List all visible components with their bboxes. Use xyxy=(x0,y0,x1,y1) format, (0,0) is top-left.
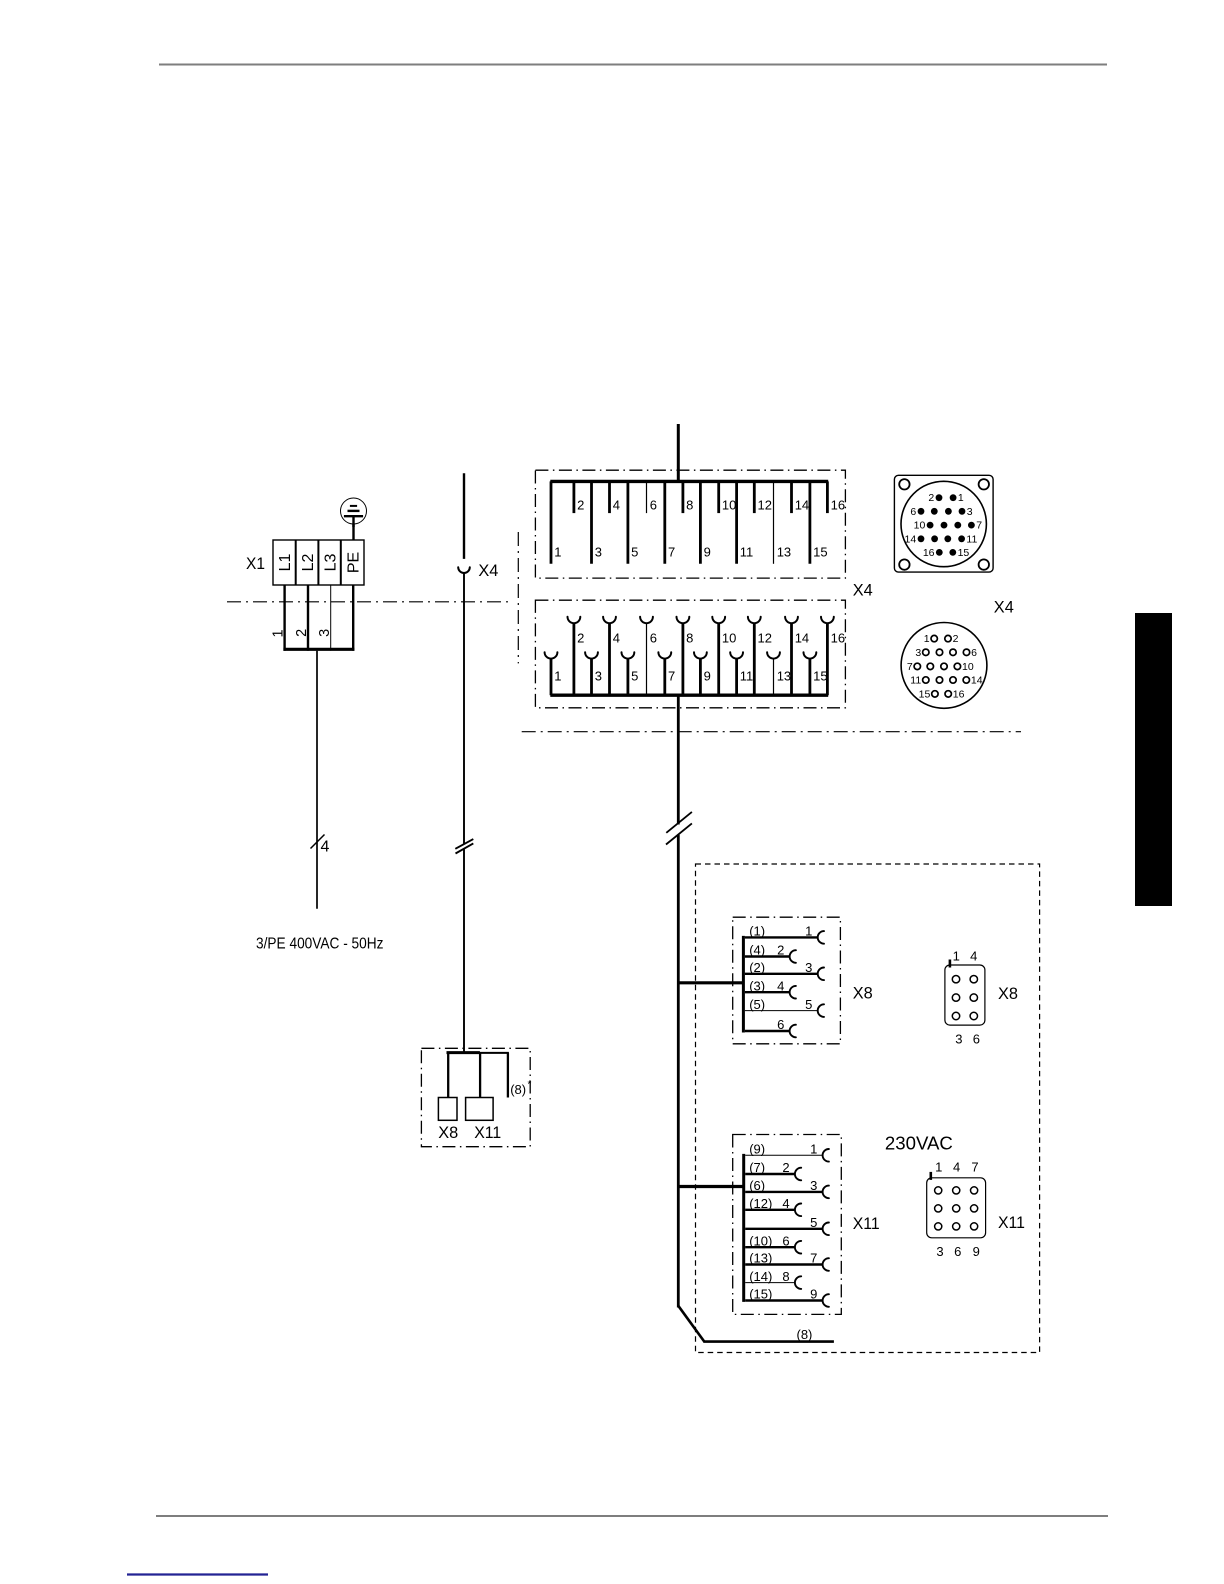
svg-text:6: 6 xyxy=(777,1017,784,1032)
X11 plug (square) xyxy=(466,1098,494,1121)
wire from connector X4 down (lower part) xyxy=(463,849,465,1052)
connector X8 face xyxy=(945,960,985,1026)
svg-text:(4): (4) xyxy=(749,943,765,958)
svg-text:5: 5 xyxy=(631,669,638,684)
X4 pin 1 xyxy=(550,481,553,563)
svg-text:14: 14 xyxy=(905,533,917,545)
svg-text:1: 1 xyxy=(924,633,930,645)
svg-text:X4: X4 xyxy=(853,580,873,599)
X4 pin 7 xyxy=(663,481,666,563)
svg-text:3: 3 xyxy=(595,669,602,684)
connector socket X4 (left) xyxy=(458,567,470,573)
X4 pin 16 xyxy=(826,481,829,513)
svg-text:9: 9 xyxy=(973,1244,980,1259)
svg-text:3: 3 xyxy=(805,960,812,975)
X4 pin 5 xyxy=(627,481,630,563)
svg-text:1: 1 xyxy=(271,629,287,637)
svg-text:X8: X8 xyxy=(438,1123,458,1142)
svg-text:X8: X8 xyxy=(998,984,1018,1003)
svg-text:*: * xyxy=(528,1080,532,1091)
X11 pin 9 wire (15) xyxy=(745,1299,822,1301)
svg-text:16: 16 xyxy=(953,689,965,701)
plug area enclosure (dash-dot box) xyxy=(421,1048,530,1146)
terminal block X1 xyxy=(273,540,364,585)
wire to X8 plug xyxy=(447,1053,449,1098)
X4 pin 6 xyxy=(646,481,648,513)
svg-text:6: 6 xyxy=(973,1032,980,1047)
svg-text:4: 4 xyxy=(777,978,784,993)
wire (8) return xyxy=(678,1306,834,1342)
svg-text:3: 3 xyxy=(317,629,333,637)
cable break slashes (left wire) xyxy=(455,839,473,853)
svg-text:13: 13 xyxy=(777,545,791,560)
svg-text:10: 10 xyxy=(962,661,974,673)
X8 pin 5 wire (5) xyxy=(745,1010,818,1012)
X4 socket 8 xyxy=(682,623,685,695)
wire X4 bus to distribution (upper) xyxy=(677,695,680,824)
svg-text:PE: PE xyxy=(345,552,362,573)
enclosure X4 socket side (dash-dot box) xyxy=(535,600,845,708)
X4 socket 7 xyxy=(663,658,666,695)
svg-text:7: 7 xyxy=(976,520,982,532)
remote device enclosure (dashed box) xyxy=(696,864,1040,1353)
X4 pin 10 xyxy=(717,481,720,513)
svg-text:6: 6 xyxy=(954,1244,961,1259)
X4 pin 2 xyxy=(573,481,576,513)
X4 pin 13 xyxy=(773,481,775,563)
svg-text:3: 3 xyxy=(915,647,921,659)
wire to connector X4 (upper segment) xyxy=(463,473,465,559)
enclosure X4 pin side (dash-dot box) xyxy=(535,470,845,578)
supply cable wire xyxy=(316,651,318,909)
X11 pin 7 wire (13) xyxy=(745,1263,822,1265)
bus bar X8 xyxy=(742,936,745,1033)
X8 pin 1 wire (1) xyxy=(745,936,818,938)
svg-text:9: 9 xyxy=(704,545,711,560)
cabinet boundary line (left horizontal dash-dot) xyxy=(227,601,513,603)
svg-text:3: 3 xyxy=(595,545,602,560)
svg-text:(2): (2) xyxy=(749,960,765,975)
svg-text:2: 2 xyxy=(294,629,310,637)
bus bar X4 socket side xyxy=(550,694,828,697)
svg-text:12: 12 xyxy=(758,631,772,646)
svg-text:1: 1 xyxy=(953,948,960,963)
X11 pin 1 wire (9) xyxy=(745,1154,822,1156)
svg-text:(6): (6) xyxy=(749,1178,765,1193)
wire supply to X4 bus xyxy=(677,424,680,481)
svg-text:(1): (1) xyxy=(749,924,765,939)
cable break slashes (main cable) xyxy=(666,812,692,845)
svg-text:1: 1 xyxy=(554,545,561,560)
svg-text:3: 3 xyxy=(967,506,973,518)
bus bar X4 pin side xyxy=(550,480,828,483)
svg-text:11: 11 xyxy=(740,669,754,684)
svg-text:15: 15 xyxy=(958,547,970,559)
svg-text:X11: X11 xyxy=(474,1123,501,1142)
junction bar plug area xyxy=(447,1051,480,1054)
svg-text:10: 10 xyxy=(722,631,736,646)
svg-text:10: 10 xyxy=(914,520,926,532)
svg-text:4: 4 xyxy=(613,497,620,512)
svg-text:16: 16 xyxy=(831,497,845,512)
X11 face pin labels xyxy=(935,1160,980,1260)
svg-text:10: 10 xyxy=(722,497,736,512)
svg-text:7: 7 xyxy=(668,669,675,684)
X4 pin 12 xyxy=(753,481,756,513)
svg-text:15: 15 xyxy=(813,669,827,684)
svg-text:9: 9 xyxy=(810,1287,817,1302)
svg-text:15: 15 xyxy=(919,689,931,701)
svg-text:(8): (8) xyxy=(510,1082,526,1097)
svg-text:(5): (5) xyxy=(749,997,765,1012)
svg-text:(10): (10) xyxy=(749,1233,772,1248)
svg-text:L2: L2 xyxy=(300,554,317,572)
svg-text:(7): (7) xyxy=(749,1160,765,1175)
svg-text:2: 2 xyxy=(777,943,784,958)
svg-text:3: 3 xyxy=(955,1032,962,1047)
X4 socket 11 xyxy=(735,658,738,695)
X4 socket 6 xyxy=(646,623,648,695)
svg-text:1: 1 xyxy=(958,492,964,504)
svg-text:5: 5 xyxy=(810,1215,817,1230)
wire feed to X8 bus xyxy=(678,981,743,984)
wire from connector X4 down (upper part) xyxy=(463,573,465,845)
svg-text:6: 6 xyxy=(910,506,916,518)
svg-text:15: 15 xyxy=(813,545,827,560)
svg-text:5: 5 xyxy=(631,545,638,560)
svg-text:3: 3 xyxy=(936,1244,943,1259)
svg-text:8: 8 xyxy=(686,497,693,512)
svg-text:(9): (9) xyxy=(749,1142,765,1157)
X11 pin 2 wire (7) xyxy=(745,1173,794,1175)
svg-text:1: 1 xyxy=(554,669,561,684)
junction bar below X1 xyxy=(283,648,354,651)
svg-text:8: 8 xyxy=(686,631,693,646)
X8 plug (square) xyxy=(438,1098,457,1121)
svg-text:(8): (8) xyxy=(797,1327,813,1342)
X4 socket 13 xyxy=(773,658,775,695)
svg-text:X8: X8 xyxy=(853,984,873,1003)
X4 pin 8 xyxy=(682,481,685,513)
X4 pin 14 xyxy=(790,481,793,513)
X4 socket 10 xyxy=(717,623,720,695)
wire X4 bus to distribution (lower) xyxy=(677,835,680,1308)
X4 pin 11 xyxy=(735,481,738,563)
svg-text:11: 11 xyxy=(740,545,754,560)
svg-text:8: 8 xyxy=(782,1269,789,1284)
svg-text:1: 1 xyxy=(805,924,812,939)
X11 pin 4 wire (12) xyxy=(745,1209,794,1211)
wire terminal 1 (L1) xyxy=(283,585,285,651)
wire feed to X11 bus xyxy=(678,1185,743,1188)
svg-text:1: 1 xyxy=(935,1160,942,1175)
svg-text:6: 6 xyxy=(782,1233,789,1248)
svg-text:2: 2 xyxy=(577,497,584,512)
X4 socket 2 xyxy=(573,623,576,695)
wire terminal PE xyxy=(352,585,354,651)
svg-text:X11: X11 xyxy=(998,1213,1025,1232)
X4 socket 15 xyxy=(809,658,812,695)
wire (8) stub xyxy=(507,1053,509,1098)
svg-text:2: 2 xyxy=(577,631,584,646)
svg-text:13: 13 xyxy=(777,669,791,684)
X4 pin 9 xyxy=(699,481,702,563)
connector X11 face xyxy=(927,1172,986,1238)
wire terminal 3 (L3) xyxy=(330,585,332,651)
X4 socket 4 xyxy=(608,623,611,695)
wire junction to (8) stub xyxy=(479,1052,509,1054)
X8 pin 3 wire (2) xyxy=(745,973,818,975)
connector X4 cable face xyxy=(901,623,987,709)
enclosure X11 (dash-dot box) xyxy=(733,1135,842,1315)
svg-text:4: 4 xyxy=(613,631,620,646)
X8 face pin labels xyxy=(953,948,980,1046)
svg-text:6: 6 xyxy=(971,647,977,659)
svg-text:4: 4 xyxy=(953,1160,960,1175)
X4 pin 4 xyxy=(608,481,611,513)
svg-text:16: 16 xyxy=(831,631,845,646)
svg-text:14: 14 xyxy=(971,675,983,687)
svg-text:(12): (12) xyxy=(749,1196,772,1211)
svg-text:X4: X4 xyxy=(478,561,498,580)
svg-text:16: 16 xyxy=(923,547,935,559)
svg-text:2: 2 xyxy=(782,1160,789,1175)
svg-text:(14): (14) xyxy=(749,1269,772,1284)
wire to X11 plug xyxy=(479,1053,481,1098)
svg-text:4: 4 xyxy=(970,948,977,963)
cabinet boundary line (vertical dash-dot) xyxy=(517,532,519,663)
bus bar X11 xyxy=(742,1154,745,1302)
label (8)* xyxy=(510,1080,531,1098)
X4 socket 3 xyxy=(590,658,593,695)
enclosure X8 (dash-dot box) xyxy=(733,917,841,1044)
X4 socket 12 xyxy=(753,623,756,695)
ground symbol (protective earth in circle) xyxy=(341,498,367,527)
X4 cable face pins (hollow) with pin numbers xyxy=(907,633,983,700)
X8 pin 4 wire (3) xyxy=(745,991,789,993)
svg-text:3/PE 400VAC - 50Hz: 3/PE 400VAC - 50Hz xyxy=(256,936,384,953)
svg-text:(15): (15) xyxy=(749,1287,772,1302)
X8 pin 2 wire (4) xyxy=(745,955,789,957)
X4 socket 1 xyxy=(550,658,553,695)
svg-text:14: 14 xyxy=(795,497,809,512)
svg-text:X4: X4 xyxy=(994,597,1014,616)
svg-text:9: 9 xyxy=(704,669,711,684)
svg-text:6: 6 xyxy=(650,631,657,646)
svg-text:7: 7 xyxy=(971,1160,978,1175)
X4 pin 15 xyxy=(809,481,812,563)
svg-text:12: 12 xyxy=(758,497,772,512)
X8 pin 6 wire (unlabelled) xyxy=(745,1030,789,1032)
svg-text:L3: L3 xyxy=(323,554,340,572)
svg-text:1: 1 xyxy=(810,1142,817,1157)
svg-text:L1: L1 xyxy=(277,554,294,572)
X4 panel face pins (filled) with pin numbers xyxy=(905,492,983,559)
X11 pin 6 wire (10) xyxy=(745,1246,794,1248)
svg-text:11: 11 xyxy=(910,675,921,687)
X4 socket 9 xyxy=(699,658,702,695)
wire ground to PE terminal xyxy=(352,524,354,540)
X4 socket 5 xyxy=(627,658,630,695)
svg-text:7: 7 xyxy=(907,661,913,673)
X4 pin 3 xyxy=(590,481,593,563)
svg-text:6: 6 xyxy=(650,497,657,512)
svg-text:230VAC: 230VAC xyxy=(885,1133,953,1153)
svg-text:(3): (3) xyxy=(749,978,765,993)
svg-text:3: 3 xyxy=(810,1178,817,1193)
X4 socket 16 xyxy=(826,623,829,695)
svg-text:X1: X1 xyxy=(246,554,265,573)
connector X4 panel face xyxy=(894,475,993,572)
svg-text:11: 11 xyxy=(966,533,977,545)
svg-text:14: 14 xyxy=(795,631,809,646)
svg-text:(13): (13) xyxy=(749,1251,772,1266)
svg-text:7: 7 xyxy=(668,545,675,560)
svg-text:4: 4 xyxy=(321,839,330,856)
wire terminal 2 (L2) xyxy=(307,585,309,651)
svg-text:X11: X11 xyxy=(853,1214,880,1233)
svg-text:7: 7 xyxy=(810,1251,817,1266)
svg-text:4: 4 xyxy=(782,1196,789,1211)
cabinet boundary line (right horizontal dash-dot) xyxy=(522,731,1021,733)
conductor count slash xyxy=(311,835,325,849)
X11 pin 5 wire (unlabelled) xyxy=(745,1228,822,1230)
svg-text:2: 2 xyxy=(953,633,959,645)
svg-text:2: 2 xyxy=(928,492,934,504)
X11 pin 3 wire (6) xyxy=(745,1191,822,1193)
svg-text:5: 5 xyxy=(805,997,812,1012)
X4 socket 14 xyxy=(790,623,793,695)
X11 pin 8 wire (14) xyxy=(745,1282,794,1284)
